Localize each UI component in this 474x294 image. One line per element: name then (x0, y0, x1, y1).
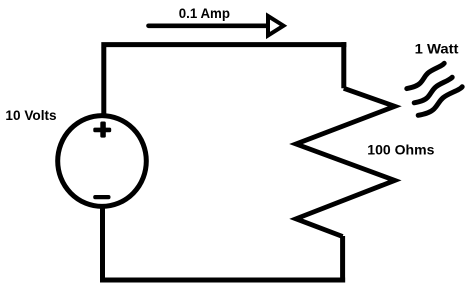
wire right vertical lower (resistor down to bottom rail) (340, 236, 345, 283)
wire bottom rail (100, 278, 345, 283)
wire right vertical (top rail down to resistor) (341, 42, 346, 88)
wire left vertical lower (bottom rail up to source - terminal) (100, 208, 105, 283)
heat wave 2 (414, 77, 452, 103)
minus sign of source (93, 195, 110, 199)
wire top rail (101, 42, 346, 47)
svg-text:1 Watt: 1 Watt (415, 40, 459, 56)
wire left vertical (source + terminal up to top rail) (101, 47, 106, 117)
heat wave 1 (407, 63, 444, 88)
plus sign of source (93, 122, 111, 138)
heat wave 3 (418, 87, 462, 116)
current arrow shaft (149, 23, 279, 28)
svg-text:100 Ohms: 100 Ohms (367, 141, 434, 157)
svg-text:0.1 Amp: 0.1 Amp (179, 5, 230, 21)
resistor R (zigzag) (296, 88, 395, 236)
svg-text:10 Volts: 10 Volts (5, 107, 56, 123)
current arrow head (268, 16, 284, 36)
voltage source V1 (circle) (58, 116, 147, 207)
